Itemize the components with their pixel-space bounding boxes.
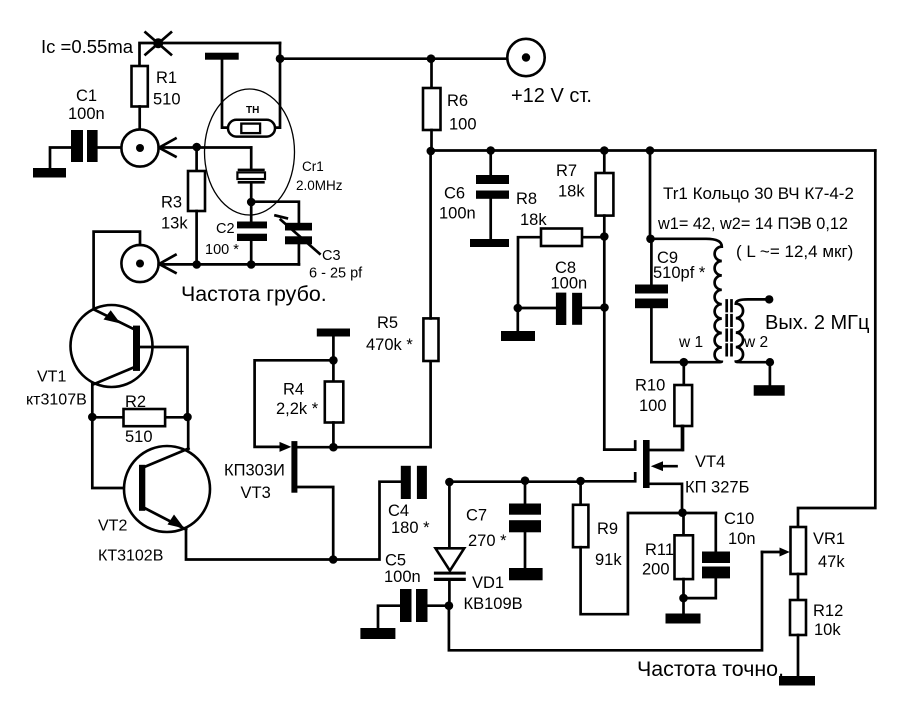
- node junction R3 top: [192, 143, 201, 152]
- wire VT1 base to R2 right junction: [140, 347, 188, 417]
- svg-text:C7: C7: [466, 507, 487, 525]
- svg-text:18k: 18k: [520, 211, 547, 229]
- node junction C8 right: [600, 303, 609, 312]
- svg-text:C6: C6: [444, 185, 465, 203]
- node junction R3 bottom: [192, 260, 201, 269]
- svg-text:R7: R7: [556, 162, 577, 180]
- svg-text:R4: R4: [283, 381, 304, 399]
- node junction at +12 corner: [276, 54, 285, 63]
- svg-text:200: 200: [642, 561, 670, 579]
- svg-text:C5: C5: [385, 552, 406, 570]
- capacitor C7: [466, 481, 541, 568]
- svg-text:R1: R1: [156, 69, 177, 87]
- node junction at R6 top: [427, 54, 436, 63]
- svg-text:100n: 100n: [439, 205, 476, 223]
- ground above R4: [317, 329, 350, 337]
- svg-text:w 1: w 1: [678, 334, 703, 351]
- svg-text:100 *: 100 *: [205, 242, 239, 258]
- svg-text:VT3: VT3: [241, 484, 271, 502]
- wire VT1 collector down to VT2 base: [92, 384, 139, 488]
- capacitor C9: [635, 249, 706, 308]
- wire C1 right to terminal 1: [98, 146, 122, 149]
- node junction VT3 source on rail: [329, 555, 338, 564]
- svg-text:47k: 47k: [818, 553, 845, 571]
- svg-text:R12: R12: [813, 602, 843, 620]
- wire C1 left to ground: [50, 148, 71, 169]
- wire terminal 1 to crystal top: [160, 146, 252, 149]
- svg-text:10k: 10k: [814, 621, 841, 639]
- wire VT3 drain to R5: [297, 361, 430, 447]
- node junction C4 right / VD1: [445, 478, 454, 487]
- svg-text:w 2: w 2: [743, 334, 768, 351]
- wire main +12 bus: [431, 149, 876, 152]
- capacitor C5: [378, 552, 449, 629]
- svg-text:Частота грубо.: Частота грубо.: [181, 282, 327, 306]
- wire VT2 collector up to R2 junction: [187, 417, 190, 449]
- transistor VT3 JFET: [224, 441, 297, 502]
- resistor R9: [573, 481, 716, 614]
- ground at C6: [470, 239, 509, 247]
- transformer Tr1 primary w1: [651, 239, 722, 362]
- terminal connector 2: [121, 245, 175, 282]
- svg-text:100n: 100n: [68, 105, 105, 123]
- svg-text:100: 100: [639, 397, 667, 415]
- heater TH stadium body: [228, 105, 275, 137]
- wire +12 rail to supply terminal: [280, 57, 508, 60]
- svg-text:КП 327Б: КП 327Б: [685, 479, 749, 497]
- wire +12 corner down to heater TH right: [260, 59, 280, 128]
- ground at C1: [33, 168, 66, 178]
- wire corner down to +12 rail: [279, 43, 282, 59]
- resistor R12: [790, 600, 843, 676]
- wire VR1 wiper to varicap tuning line: [449, 552, 762, 650]
- ground at C7: [509, 568, 543, 580]
- ground at C8: [501, 331, 535, 341]
- node junction C7 top: [521, 476, 530, 485]
- node junction C8 left: [514, 304, 523, 313]
- node junction VD1 bottom / C5: [445, 601, 454, 610]
- svg-text:( L ~= 12,4 мкг): ( L ~= 12,4 мкг): [736, 242, 853, 261]
- capacitor C2: [205, 202, 267, 265]
- svg-text:C10: C10: [724, 510, 754, 528]
- svg-text:Cr1: Cr1: [302, 159, 324, 174]
- wire top from R1 up and right to corner: [140, 43, 281, 66]
- svg-text:R9: R9: [597, 520, 618, 538]
- wire C8 left to ground: [516, 308, 519, 331]
- wire VT3 gate loop: [255, 360, 334, 447]
- wire Tr1 node down to C9/w1 top: [649, 151, 652, 239]
- node junction VT4 source / R11: [678, 508, 687, 517]
- thermostat enclosure ellipse: [205, 89, 295, 215]
- node junction R4 top: [329, 356, 338, 365]
- node junction R2 left: [88, 413, 97, 422]
- wire R1 bottom to input terminal 1: [138, 107, 141, 130]
- wire R7 node down to VT4 gate1: [603, 237, 606, 450]
- svg-text:КТ3102В: КТ3102В: [98, 548, 163, 565]
- transistor VT2 NPN: [98, 446, 210, 565]
- wire VR1 bottom to R12: [797, 574, 800, 600]
- variable capacitor C3: [276, 216, 364, 282]
- wire bus right corner down to VR1: [798, 151, 875, 528]
- node dot w2 top output: [765, 295, 773, 303]
- terminal connector 1: [121, 129, 175, 166]
- svg-text:100: 100: [449, 116, 477, 134]
- svg-text:510: 510: [153, 91, 181, 109]
- svg-text:C3: C3: [322, 248, 341, 264]
- resistor R2: [92, 393, 187, 446]
- resistor R8: [516, 190, 604, 308]
- node junction R7 bottom: [600, 232, 609, 241]
- wire crystal bottom to C3 top: [251, 202, 299, 223]
- svg-text:R6: R6: [447, 92, 468, 110]
- ground at R12: [779, 676, 815, 686]
- svg-text:R3: R3: [161, 194, 182, 212]
- svg-text:510pf *: 510pf *: [653, 264, 706, 282]
- svg-text:Tr1 Кольцо 30 ВЧ К7-4-2: Tr1 Кольцо 30 ВЧ К7-4-2: [663, 184, 854, 203]
- svg-text:2.0MHz: 2.0MHz: [296, 178, 343, 193]
- node junction bus R6: [427, 147, 436, 156]
- ground at C5: [360, 628, 395, 639]
- resistor R7: [556, 151, 613, 237]
- svg-text:R8: R8: [516, 190, 537, 208]
- node junction crystal bottom: [247, 198, 256, 207]
- svg-text:10n: 10n: [728, 530, 756, 548]
- resistor R4: [276, 381, 343, 448]
- node junction w1 bottom / R10: [680, 358, 689, 367]
- wire C9 leg left: [650, 239, 653, 362]
- svg-text:470k *: 470k *: [366, 336, 413, 354]
- svg-text:C2: C2: [216, 221, 235, 237]
- wire w2 bottom to ground: [769, 362, 772, 385]
- svg-text:R2: R2: [125, 393, 146, 411]
- svg-text:13k: 13k: [161, 215, 188, 233]
- wire VT2 emitter rail: [186, 482, 401, 560]
- svg-text:VT1: VT1: [37, 369, 66, 386]
- svg-text:R5: R5: [377, 314, 398, 332]
- node junction R2 right: [183, 413, 192, 422]
- ground at R11: [666, 614, 701, 624]
- heater supply bar: [205, 53, 239, 60]
- svg-text:C4: C4: [388, 502, 409, 520]
- node junction bus R7: [600, 146, 609, 155]
- svg-text:100n: 100n: [384, 568, 421, 586]
- wire heater bar down to heater TH: [222, 60, 241, 128]
- svg-text:w1= 42, w2= 14 ПЭВ 0,12: w1= 42, w2= 14 ПЭВ 0,12: [657, 215, 848, 233]
- transistor VT1 PNP: [26, 305, 153, 409]
- resistor R10: [635, 362, 692, 450]
- resistor R5: [366, 151, 439, 361]
- transistor VT4 dual-gate MOSFET: [581, 426, 750, 513]
- capacitor C8: [518, 259, 605, 325]
- capacitor C4: [388, 466, 430, 537]
- svg-text:91k: 91k: [595, 551, 622, 569]
- svg-text:кт3107В: кт3107В: [26, 392, 87, 409]
- transformer Tr1 core: [727, 301, 732, 358]
- resistor R11: [642, 513, 693, 614]
- svg-text:КП303И: КП303И: [224, 462, 285, 480]
- svg-text:2,2k *: 2,2k *: [276, 400, 319, 418]
- node junction R4 bottom: [329, 443, 338, 452]
- svg-text:Ic =0.55ma: Ic =0.55ma: [41, 36, 134, 57]
- capacitor C6: [439, 151, 509, 240]
- wire terminal 2 top to VT1 emitter: [94, 232, 140, 310]
- terminal +12V connector: [507, 39, 544, 76]
- svg-text:270 *: 270 *: [468, 532, 507, 550]
- svg-text:Частота точно.: Частота точно.: [637, 657, 784, 681]
- svg-text:18k: 18k: [558, 183, 585, 201]
- svg-text:C1: C1: [76, 87, 97, 105]
- node junction C9 top: [646, 235, 655, 244]
- varicap diode VD1: [434, 482, 523, 613]
- resistor R1: [132, 66, 181, 109]
- node junction bus Tr1: [646, 146, 655, 155]
- capacitor C1: [68, 87, 105, 162]
- svg-text:R11: R11: [645, 541, 674, 559]
- wire VT3 source to rail: [297, 487, 333, 560]
- svg-text:100n: 100n: [551, 275, 588, 293]
- svg-text:+12 V ст.: +12 V ст.: [511, 85, 592, 107]
- node junction C2 bottom: [247, 260, 256, 269]
- svg-text:VR1: VR1: [813, 530, 845, 548]
- node junction bus C6: [486, 146, 495, 155]
- crystal Cr1: [237, 148, 342, 203]
- potentiometer VR1: [762, 527, 845, 574]
- transformer Tr1 secondary w2: [736, 299, 770, 362]
- ground at w2: [754, 385, 785, 396]
- node junction R11 bottom / C10 bottom: [679, 594, 688, 603]
- fuse/break mark X on supply wire: [146, 32, 172, 54]
- svg-text:Вых. 2 МГц: Вых. 2 МГц: [765, 312, 869, 334]
- capacitor C10: [684, 510, 756, 598]
- resistor R3: [161, 148, 205, 265]
- svg-text:КВ109В: КВ109В: [464, 595, 523, 613]
- resistor R6: [423, 59, 477, 151]
- wire gate2 row from C4: [449, 480, 580, 483]
- svg-text:R10: R10: [635, 377, 665, 395]
- wire lower terminal row: [160, 263, 299, 266]
- svg-text:TH: TH: [246, 105, 259, 116]
- svg-text:VT4: VT4: [695, 453, 725, 471]
- wire ground to R4 top junction: [332, 337, 335, 382]
- svg-text:VT2: VT2: [98, 518, 127, 535]
- svg-text:6 - 25 pf: 6 - 25 pf: [309, 266, 363, 282]
- svg-text:180 *: 180 *: [391, 519, 430, 537]
- node dot w2 bottom: [766, 358, 774, 366]
- svg-text:VD1: VD1: [472, 574, 504, 592]
- svg-text:510: 510: [125, 428, 153, 446]
- node junction gate2/R9: [576, 477, 585, 486]
